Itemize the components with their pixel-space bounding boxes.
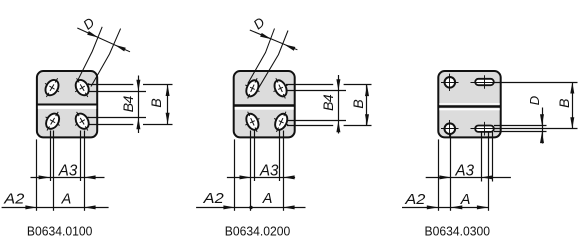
dim B4 arrow top (dwg2) xyxy=(336,79,340,91)
dim A line (dwg3) xyxy=(402,207,488,209)
round hole top-left xyxy=(445,77,456,88)
svg-text:B: B xyxy=(148,98,164,107)
plate B0634.0100 body xyxy=(37,71,97,137)
extension line slot right outer (dwg3) xyxy=(488,132,490,211)
angled slot hole 1 top-left xyxy=(39,74,64,101)
dim A arrow right (dwg2) xyxy=(283,205,295,209)
dim A3 line (dwg3) xyxy=(426,177,511,179)
dim A3 line (dwg2) xyxy=(227,177,295,179)
extension line top surface center lower (dwg2) xyxy=(287,90,347,92)
angled slot hole 4 bottom-right xyxy=(70,108,95,135)
svg-text:B0634.0200: B0634.0200 xyxy=(225,224,290,239)
extension line bottom surface center lower (dwg2) xyxy=(287,125,333,127)
dim D line (dwg1) xyxy=(77,28,130,52)
extension line plate left edge (dwg1) xyxy=(36,139,38,210)
dim B4 line (dwg1) xyxy=(138,76,140,134)
dim A arrow right (dwg1) xyxy=(84,205,96,209)
extension line bottom slot center (dwg3) xyxy=(494,128,578,130)
extension line slot lower edge (dwg3) xyxy=(494,131,547,133)
plate B0634.0200 body xyxy=(234,71,295,137)
plate B0634.0200 body split joint xyxy=(235,107,294,110)
slot hole top-right xyxy=(475,79,494,85)
dim A line (dwg1) xyxy=(2,207,109,209)
angled slot hole 8 bottom-right xyxy=(269,108,293,135)
dim B arrow top (dwg1) xyxy=(166,85,170,97)
svg-text:A: A xyxy=(262,191,273,207)
dim D arrow lower (dwg1) xyxy=(115,45,126,52)
svg-text:B4: B4 xyxy=(320,94,336,111)
plate B0634.0300 body split joint xyxy=(439,103,499,105)
dim A3 arrow right (dwg1) xyxy=(84,175,96,179)
dim D slot edge leader right (dwg2) xyxy=(257,31,288,91)
svg-text:A2: A2 xyxy=(3,192,24,208)
dim D slot edge leader right (dwg1) xyxy=(91,29,121,87)
extension line top surface center upper (dwg1) xyxy=(88,84,133,86)
svg-text:B: B xyxy=(350,99,366,108)
dim D slot edge leader left (dwg1) xyxy=(77,27,102,82)
angled slot hole 6 top-right xyxy=(269,75,293,102)
dim B arrow bottom (dwg2) xyxy=(365,114,369,126)
extension line hole left a (dwg1) xyxy=(50,131,52,182)
dim A line (dwg2) xyxy=(196,207,305,209)
dim B arrow top (dwg2) xyxy=(365,85,369,97)
svg-text:D: D xyxy=(527,96,542,105)
round hole bottom-left xyxy=(445,123,456,134)
dim B arrow bottom (dwg1) xyxy=(166,113,170,125)
angled slot hole 3 bottom-left xyxy=(40,108,65,135)
svg-text:A2: A2 xyxy=(404,192,425,208)
dim D arrow bottom (dwg3) xyxy=(540,132,544,144)
extension line hole right a (dwg1) xyxy=(80,131,82,182)
dim D arrow upper (dwg2) xyxy=(260,33,271,39)
dim B4 arrow bottom (dwg1) xyxy=(136,118,140,130)
extension line hole right a (dwg2) xyxy=(279,131,281,182)
dim B line (dwg3) xyxy=(572,82,574,129)
dim B4 arrow top (dwg1) xyxy=(136,80,140,92)
dim D arrow upper (dwg1) xyxy=(87,31,98,38)
angled slot hole 2 top-right xyxy=(70,74,95,101)
svg-text:A: A xyxy=(61,192,72,208)
plate B0634.0100 body split joint xyxy=(38,105,96,109)
angled slot hole 5 top-left xyxy=(241,75,265,102)
extension line plate left edge (dwg2) xyxy=(234,139,236,210)
dim A3 arrow right (dwg3) xyxy=(481,175,493,179)
dim B line (dwg1) xyxy=(167,85,169,125)
dim D slot edge leader left (dwg2) xyxy=(248,29,275,84)
dim A arrow left (dwg3) xyxy=(451,205,463,209)
slot hole bottom-right xyxy=(475,126,494,132)
extension line hole right b (dwg1) xyxy=(84,131,86,211)
dim A3 arrow right (dwg2) xyxy=(283,175,295,179)
svg-text:A: A xyxy=(460,192,471,208)
dim A2 arrow (dwg3) xyxy=(427,205,439,209)
extension line top surface center lower (dwg1) xyxy=(89,91,147,93)
svg-text:A3: A3 xyxy=(58,163,78,180)
dim B line (dwg2) xyxy=(366,85,368,126)
dim A arrow right (dwg3) xyxy=(477,205,489,209)
extension line hole column (dwg3) xyxy=(450,134,452,211)
dim A3 arrow left (dwg1) xyxy=(39,175,51,179)
extension line bottom surface center lower (dwg1) xyxy=(88,124,133,126)
extension line hole right b (dwg2) xyxy=(283,131,285,211)
extension line slot upper edge (dwg3) xyxy=(494,125,547,127)
plate B0634.0300 body xyxy=(438,71,500,137)
dim B4 arrow bottom (dwg2) xyxy=(336,121,340,133)
dim D line (dwg2) xyxy=(250,30,298,50)
extension line top slot center (dwg3) xyxy=(494,82,578,84)
extension line bottom surface center upper (dwg2) xyxy=(287,120,347,122)
dim A3 arrow left (dwg2) xyxy=(240,175,252,179)
dim A3 arrow left (dwg3) xyxy=(439,175,451,179)
dim B arrow top (dwg3) xyxy=(570,82,574,94)
extension line hole left b (dwg2) xyxy=(254,131,256,182)
extension line top surface center upper (dwg2) xyxy=(286,84,333,86)
chain dimension dot (dwg2) xyxy=(249,206,252,209)
svg-text:B: B xyxy=(556,99,572,108)
svg-text:B0634.0100: B0634.0100 xyxy=(27,224,93,239)
extension line hole left b (dwg1) xyxy=(53,131,55,211)
svg-text:A2: A2 xyxy=(203,191,224,207)
dim A2 arrow (dwg1) xyxy=(25,205,37,209)
dim D arrow top (dwg3) xyxy=(540,114,544,126)
extension line plate left edge (dwg3) xyxy=(438,139,440,210)
angled slot hole 7 bottom-left xyxy=(241,108,265,135)
svg-text:A3: A3 xyxy=(259,162,279,179)
dim D arrow lower (dwg2) xyxy=(284,44,295,50)
dim A2 arrow (dwg2) xyxy=(223,205,235,209)
svg-text:A3: A3 xyxy=(455,162,475,179)
dim B arrow bottom (dwg3) xyxy=(570,117,574,129)
extension line hole left a (dwg2) xyxy=(250,131,252,211)
extension line slot left (dwg3) xyxy=(481,132,483,182)
dim B4 line (dwg2) xyxy=(338,75,340,134)
extension line slot right edge (dwg3) xyxy=(492,132,494,182)
dim D line (dwg3) xyxy=(542,108,544,144)
svg-text:B4: B4 xyxy=(120,96,136,113)
dim A3 line (dwg1) xyxy=(31,177,105,179)
extension line bottom surface center upper (dwg1) xyxy=(87,117,146,119)
svg-text:B0634.0300: B0634.0300 xyxy=(425,224,491,239)
